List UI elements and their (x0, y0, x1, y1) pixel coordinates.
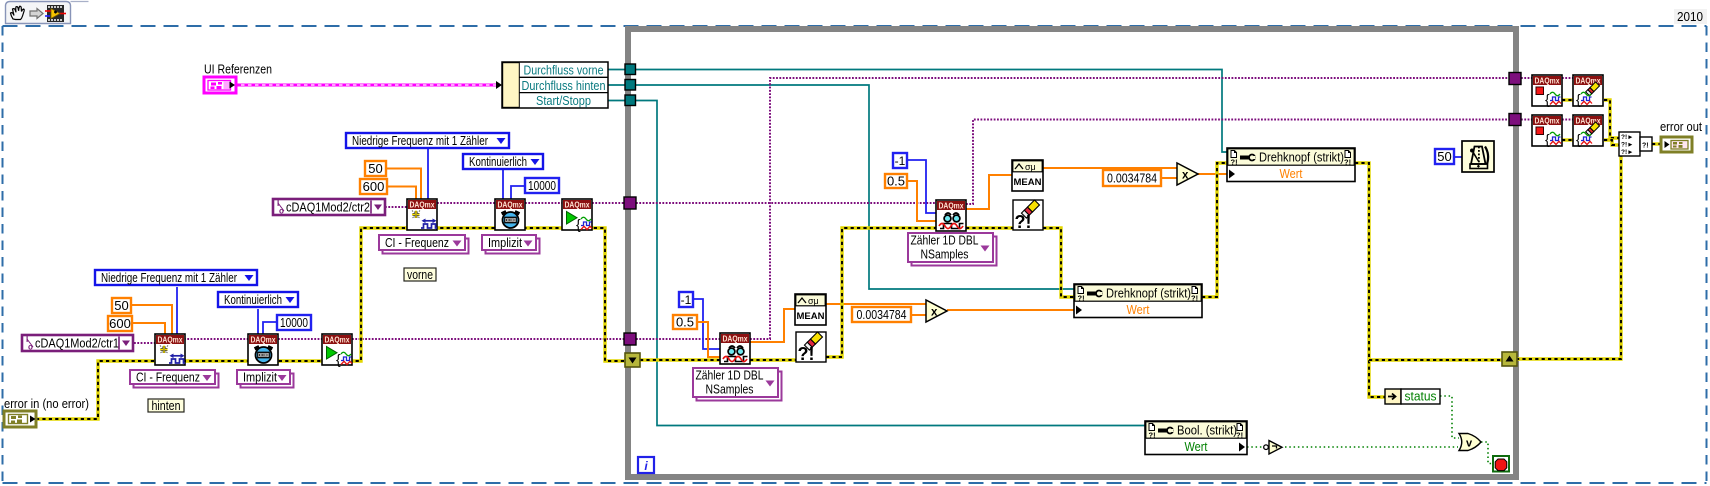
DAQmx Stop VI (vorne task) (1532, 115, 1562, 147)
svg-text:?!: ?! (1236, 431, 1243, 440)
IO constant cDAQ1Mod2/ctr2 (273, 199, 385, 216)
wire: error clear1 to merge (1604, 100, 1619, 138)
wire: teal ref Start/Stopp to tunnel (608, 100, 625, 102)
property node Bool. (strikt) (1145, 421, 1247, 455)
numeric constant -1 (lower) (679, 292, 693, 307)
unbundle by name: Durchfluss vorne / hinten / Start-Stopp (502, 62, 608, 108)
numeric constant 10000 (vorne) (525, 178, 559, 193)
svg-text:Kontinuierlich: Kontinuierlich (469, 154, 527, 169)
mean VI (upper) (1012, 160, 1043, 191)
wire: not gate to or gate (1285, 446, 1458, 448)
ring constant Implizit (hinten) (237, 370, 294, 388)
numeric constant 600 (vorne) (360, 179, 387, 194)
svg-text:50: 50 (368, 161, 382, 176)
svg-text:0.0034784: 0.0034784 (1107, 171, 1157, 186)
svg-text:Drehknopf (strikt): Drehknopf (strikt) (1259, 150, 1344, 165)
wire: task tunnel to read2 (636, 338, 720, 340)
wire: 600 to create2 (132, 323, 165, 335)
wire: task tunnel to stop1 (1521, 77, 1532, 79)
wire: task create1-timing1 (437, 202, 495, 204)
wire: -1 to read1 (907, 160, 936, 213)
multiply node (lower) (926, 300, 947, 322)
numeric constant 0.5 (upper) (885, 174, 907, 189)
tunnel: task out bottom (1509, 114, 1521, 126)
wire: task ctr2 to create (385, 206, 407, 208)
svg-text:600: 600 (363, 179, 385, 194)
wire: enum to create2 (176, 287, 178, 335)
svg-text:error in (no error): error in (no error) (4, 396, 89, 411)
wire: or gate to loop condition (1481, 442, 1493, 464)
clear errors node (lower) (796, 332, 826, 364)
svg-text:0.5: 0.5 (887, 174, 905, 189)
wire: read2 to mean2 (750, 309, 795, 342)
wire: multiply2 to Drehknopf2 Wert (947, 309, 1074, 311)
svg-text:?!: ?! (1191, 294, 1198, 303)
svg-text:vorne: vorne (407, 267, 433, 282)
enum constant Niedrige Frequenz (hinten) (95, 270, 257, 285)
enum constant Niedrige Frequenz (vorne) (346, 133, 509, 148)
numeric constant 0.0034784 (upper) (1103, 170, 1161, 186)
wire: teal ref Durchfluss hinten to tunnel (608, 84, 625, 86)
DAQmx Start VI (vorne) (562, 199, 592, 232)
enum constant Kontinuierlich (hinten) (218, 292, 298, 307)
wire: multiply1 to Drehknopf1 Wert (1198, 173, 1227, 175)
svg-text:Zähler 1D DBL: Zähler 1D DBL (696, 368, 764, 383)
wire: error stop1-clear1 (1562, 98, 1573, 101)
numeric constant 50 (vorne) (365, 161, 386, 176)
svg-text:NSamples: NSamples (706, 382, 754, 397)
wire: task tunnel to stop2 (1521, 119, 1532, 121)
wire: UI Referenzen cluster wire (234, 81, 502, 89)
svg-text:Implizit: Implizit (243, 370, 277, 385)
tunnel: Durchfluss vorne (625, 64, 636, 75)
wire: error clear2 to merge (1604, 140, 1619, 145)
svg-text:hinten: hinten (152, 398, 181, 413)
ring constant CI - Frequenz (hinten) (130, 370, 219, 388)
tunnel: task vorne (624, 197, 636, 209)
DAQmx Clear VI (hinten task) (1573, 75, 1603, 107)
svg-text:Bool. (strikt): Bool. (strikt) (1177, 423, 1237, 438)
svg-text:?!►: ?!► (1621, 134, 1634, 141)
wire: 50 to wait-ms (1454, 156, 1462, 158)
wire: task start1 to loop tunnel (592, 202, 625, 204)
numeric constant 600 (hinten) (108, 316, 132, 331)
svg-text:Wert: Wert (1127, 302, 1150, 317)
not gate (1264, 441, 1282, 455)
svg-text:?!: ?! (1231, 158, 1238, 167)
DAQmx Timing VI (hinten) (248, 334, 278, 365)
DAQmx Read VI (lower) (720, 333, 750, 364)
merge errors node (1619, 132, 1652, 156)
wire: task stop1-clear1 (1562, 77, 1573, 79)
toolbar: arrow icon (30, 9, 43, 19)
or gate (1459, 434, 1481, 451)
numeric constant 10000 (hinten) (277, 315, 311, 330)
tunnel: task out top (1509, 73, 1521, 85)
numeric constant 50 (wait ms) (1435, 149, 1454, 164)
svg-text:Kontinuierlich: Kontinuierlich (224, 292, 282, 307)
multiply node (upper) (1177, 163, 1198, 185)
svg-text:0.5: 0.5 (676, 315, 694, 330)
wire: 0.0034784 to multiply1 (1161, 177, 1177, 179)
svg-text:Drehknopf (strikt): Drehknopf (strikt) (1106, 286, 1191, 301)
free label vorne (404, 267, 436, 282)
wire: error read1 to clear-errors1 (966, 226, 1013, 229)
svg-text:50: 50 (114, 298, 128, 313)
toolbar: hand tool icon (11, 6, 25, 19)
svg-text:10000: 10000 (528, 178, 556, 193)
wire: error clear-errors1 to Drehknopf2 (1043, 228, 1074, 297)
tunnel: task hinten (624, 333, 636, 345)
svg-text:CI - Frequenz: CI - Frequenz (385, 235, 449, 250)
wire: error merge to error out (1652, 142, 1661, 145)
svg-text:?!: ?! (1149, 431, 1156, 440)
wire: 10000 to timing2 (263, 322, 277, 335)
right shift register (1502, 352, 1517, 366)
svg-text:Start/Stopp: Start/Stopp (536, 93, 591, 108)
svg-text:UI Referenzen: UI Referenzen (204, 62, 272, 77)
svg-text:cDAQ1Mod2/ctr2: cDAQ1Mod2/ctr2 (286, 200, 370, 215)
wire: status to or gate (1440, 396, 1459, 438)
DAQmx Create Channel VI (vorne) (407, 199, 437, 230)
numeric constant -1 (upper) (893, 153, 907, 168)
wire: task start2 to loop tunnel (352, 338, 624, 340)
DAQmx Clear VI (vorne task) (1573, 115, 1603, 147)
IO constant cDAQ1Mod2/ctr1 (22, 335, 133, 352)
label 2010 (1674, 9, 1707, 24)
wire: -1 to read2 (693, 299, 720, 349)
wire: teal Start/Stopp to Bool node (635, 101, 1145, 426)
wire: enum to create1 (427, 148, 429, 202)
wire: 0.5 to read1 (907, 181, 936, 221)
svg-text:?!►: ?!► (1621, 142, 1634, 149)
svg-text:error out: error out (1660, 119, 1702, 134)
unbundle by name: status (1385, 389, 1440, 404)
wire: task create2-timing2 (184, 338, 248, 340)
numeric constant 50 (hinten) (112, 298, 131, 313)
wire: 50 to create2 (131, 305, 172, 335)
numeric constant 0.5 (lower) (673, 315, 697, 330)
wire: task timing1-start1 (525, 202, 562, 204)
svg-text:600: 600 (109, 316, 131, 331)
svg-text:?!►: ?!► (1621, 149, 1634, 156)
svg-text:2010: 2010 (1677, 9, 1703, 24)
wire: error clear-errors2 to read1 (826, 228, 936, 357)
wire: 10000 to timing1 (511, 186, 525, 202)
svg-text:Zähler 1D DBL: Zähler 1D DBL (911, 233, 979, 248)
wire: teal ref Durchfluss vorne to tunnel (608, 69, 625, 71)
svg-text:-1: -1 (895, 154, 906, 168)
UI Referenzen cluster control (204, 77, 236, 93)
svg-text:50: 50 (1437, 149, 1451, 164)
svg-text:Wert: Wert (1185, 439, 1208, 454)
wire: task ctr1 to create2 (134, 342, 155, 344)
svg-text:Durchfluss vorne: Durchfluss vorne (524, 63, 604, 78)
wire: Bool Wert to not gate (1247, 446, 1264, 448)
svg-text:CI - Frequenz: CI - Frequenz (136, 370, 200, 385)
svg-text:cDAQ1Mod2/ctr1: cDAQ1Mod2/ctr1 (35, 336, 119, 351)
svg-text:?!: ?! (1642, 143, 1649, 150)
DAQmx Read VI (upper) (936, 200, 966, 231)
ring constant Zaehler 1D DBL NSamples (upper) (908, 233, 997, 266)
mean VI (lower) (795, 294, 826, 325)
ring constant Zaehler 1D DBL NSamples (lower) (693, 368, 782, 401)
error in control (4, 411, 36, 427)
wire: mean1 to multiply1 (1043, 167, 1177, 169)
free label hinten (148, 398, 184, 413)
loop condition terminal (stop) (1493, 456, 1509, 472)
tunnel: Start/Stopp (625, 95, 636, 106)
DAQmx Start VI (hinten) (322, 334, 352, 367)
wire: error Drehknopf2 to Drehknopf1 (1202, 163, 1227, 297)
svg-text:10000: 10000 (280, 315, 308, 330)
wire: 50 to create1 (386, 169, 421, 203)
wire: task tunnel to read1 (636, 202, 936, 204)
wire: teal Durchfluss vorne to Drehknopf 1 (635, 70, 1227, 153)
error out indicator (1661, 137, 1692, 152)
wire: teal Durchfluss hinten to Drehknopf 2 (635, 85, 1074, 289)
DAQmx Create Channel VI (hinten) (155, 334, 185, 365)
DAQmx Stop VI (hinten task) (1532, 75, 1562, 107)
wire: error stop2-clear2 (1562, 138, 1573, 141)
svg-text:0.0034784: 0.0034784 (857, 307, 907, 322)
toolbar: VI icon (45, 5, 66, 22)
wire: error right SR to merge errors (1516, 152, 1621, 359)
property node Drehknopf (strikt) upper (1227, 148, 1355, 182)
iteration terminal i (638, 457, 654, 473)
wire: error in through both chains to left shift register (36, 228, 626, 419)
svg-text:-1: -1 (681, 293, 692, 307)
wire: task read1 to right tunnel (966, 120, 1509, 205)
svg-text:?!: ?! (1344, 158, 1351, 167)
svg-text:v: v (1466, 438, 1473, 450)
svg-text:Niedrige Frequenz mit 1 Zähler: Niedrige Frequenz mit 1 Zähler (101, 270, 237, 285)
ring constant CI - Frequenz (vorne) (379, 235, 469, 254)
DAQmx Timing VI (vorne) (495, 199, 525, 230)
toolbar tab (6, 2, 89, 24)
numeric constant 0.0034784 (lower) (852, 307, 911, 322)
wire: read1 to mean1 (966, 175, 1012, 209)
svg-text:status: status (1405, 390, 1437, 404)
wire: task timing2-start2 (278, 338, 322, 340)
wait until next ms multiple VI (1462, 141, 1494, 172)
wire: 0.0034784 to multiply2 (911, 314, 926, 316)
enum constant Kontinuierlich (vorne) (463, 154, 543, 169)
ring constant Implizit (vorne) (482, 235, 540, 254)
left shift register (625, 353, 640, 367)
wire: error read2 to clear-errors 2 (750, 358, 796, 361)
tunnel: Durchfluss hinten (625, 80, 636, 91)
wire: task stop2-clear2 (1562, 119, 1573, 121)
while loop frame (628, 29, 1516, 477)
svg-text:Wert: Wert (1280, 166, 1303, 181)
svg-text:Durchfluss hinten: Durchfluss hinten (522, 78, 606, 93)
wire: kontinuierlich to timing1 (502, 169, 504, 202)
clear errors node (upper) (1013, 200, 1043, 232)
property node Drehknopf (strikt) lower (1074, 284, 1202, 318)
wire: 0.5 to read2 (697, 322, 720, 357)
wire: 600 to create1 (387, 187, 416, 203)
wire: task read2 to right tunnel (750, 78, 1509, 339)
wire: kontinuierlich to timing2 (257, 309, 259, 335)
wire: error branch to right shift register (1369, 358, 1503, 361)
svg-text:Implizit: Implizit (488, 235, 522, 250)
svg-text:?!: ?! (1078, 294, 1085, 303)
wire: error SR to read2 (640, 358, 720, 361)
wire: mean2 to multiply2 (826, 303, 926, 305)
svg-text:Niedrige Frequenz mit 1 Zähler: Niedrige Frequenz mit 1 Zähler (352, 133, 488, 148)
wire: error Drehknopf1 to status unbundle (1355, 163, 1385, 397)
svg-text:NSamples: NSamples (921, 247, 969, 262)
